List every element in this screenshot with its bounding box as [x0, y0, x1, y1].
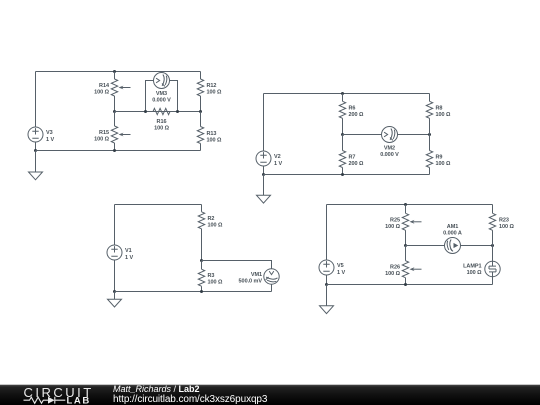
svg-text:500.0 mV: 500.0 mV — [239, 278, 263, 284]
wire bottom rail circuit4 — [327, 284, 493, 286]
wire right rail top circuit2 — [429, 94, 431, 102]
svg-text:R7: R7 — [349, 155, 356, 161]
svg-text:100 Ω: 100 Ω — [208, 222, 224, 228]
ground symbol circuit4 — [320, 285, 334, 314]
footer black bar — [0, 385, 540, 405]
wire VM2 right lead — [398, 134, 430, 136]
resistor R8 100 Ohm — [426, 101, 451, 134]
node junction top of R25 — [404, 203, 407, 206]
svg-text:R13: R13 — [207, 131, 217, 137]
svg-text:R16: R16 — [157, 119, 167, 125]
CircuitLab logo waveform resistor and diode — [24, 397, 66, 404]
footer link title Matt_Richards / Lab2 — [113, 384, 200, 394]
svg-text:0.000 V: 0.000 V — [380, 152, 399, 158]
svg-text:Matt_Richards / Lab2: Matt_Richards / Lab2 — [113, 384, 200, 394]
wire bottom rail circuit1 — [36, 150, 201, 152]
ground symbol circuit3 — [108, 292, 122, 308]
wire left rail circuit1 — [35, 72, 37, 128]
svg-text:R15: R15 — [99, 130, 109, 136]
ammeter AM1 0.000 A — [443, 224, 462, 254]
resistor R7 200 Ohm — [339, 135, 364, 175]
svg-text:R3: R3 — [208, 273, 215, 279]
svg-text:R23: R23 — [499, 217, 509, 223]
svg-text:AM1: AM1 — [447, 224, 458, 230]
svg-text:100 Ω: 100 Ω — [467, 270, 483, 276]
svg-text:R12: R12 — [207, 83, 217, 89]
resistor R15 100 Ohm potentiometer — [94, 112, 130, 151]
wire bottom rail circuit2 — [264, 174, 430, 176]
svg-text:R9: R9 — [436, 155, 443, 161]
svg-text:R8: R8 — [436, 105, 443, 111]
svg-text:V3: V3 — [46, 130, 53, 136]
resistor R9 100 Ohm — [426, 135, 451, 175]
node junction bottom of R15 — [113, 149, 116, 152]
wire left rail circuit4 — [326, 205, 328, 261]
svg-text:R14: R14 — [99, 83, 110, 89]
svg-text:VM2: VM2 — [384, 146, 395, 152]
node junction V1-minus and ground — [113, 290, 116, 293]
svg-text:VM3: VM3 — [156, 91, 167, 97]
resistor R3 100 Ohm — [198, 261, 223, 292]
wire VM1 top lead — [202, 261, 272, 269]
wire VM2 left lead — [343, 134, 382, 136]
wire V3 bottom lead — [35, 142, 37, 151]
svg-text:100 Ω: 100 Ω — [385, 224, 401, 230]
node junction V2-minus and ground — [262, 173, 265, 176]
resistor R6 200 Ohm — [339, 94, 364, 135]
node junction mid circuit4 — [404, 244, 407, 247]
wire top rail circuit4 — [327, 204, 493, 206]
node junction R23-LAMP1 — [491, 244, 494, 247]
resistor R12 100 Ohm — [197, 72, 222, 112]
resistor R26 100 Ohm potentiometer — [385, 246, 421, 285]
svg-text:1 V: 1 V — [274, 161, 282, 167]
node junction bottom of R7 — [341, 173, 344, 176]
svg-text:1 V: 1 V — [337, 270, 345, 276]
wire bottom rail circuit3 — [115, 291, 272, 293]
svg-text:1 V: 1 V — [125, 255, 133, 261]
svg-text:0.000 A: 0.000 A — [443, 231, 462, 237]
wire left rail circuit2 — [263, 94, 265, 152]
node junction mid-left of bridge — [113, 110, 116, 113]
lamp LAMP1 100 Ohm — [463, 246, 500, 285]
voltage source V2 1 V — [256, 151, 282, 167]
voltmeter VM1 500.0 mV — [239, 269, 280, 285]
svg-text:R26: R26 — [390, 265, 400, 271]
svg-text:V2: V2 — [274, 154, 281, 160]
svg-text:100 Ω: 100 Ω — [207, 137, 223, 143]
CircuitLab logo wordmark LAB — [67, 395, 91, 405]
svg-text:http://circuitlab.com/ck3xsz6p: http://circuitlab.com/ck3xsz6puxqp3 — [113, 394, 268, 405]
voltmeter VM2 0.000 V — [380, 127, 399, 159]
svg-text:V5: V5 — [337, 263, 344, 269]
ground symbol circuit2 — [257, 175, 271, 204]
voltage source V1 1 V — [107, 245, 133, 261]
resistor R13 100 Ohm — [197, 112, 222, 151]
svg-text:100 Ω: 100 Ω — [94, 137, 110, 143]
voltage source V5 1 V — [319, 260, 345, 276]
voltage source V3 1 V — [28, 127, 54, 143]
svg-text:100 Ω: 100 Ω — [208, 280, 224, 286]
svg-text:LAMP1: LAMP1 — [463, 264, 481, 270]
node junction bottom of R26 — [404, 283, 407, 286]
voltmeter VM3 0.000 V — [146, 73, 178, 112]
svg-text:100 Ω: 100 Ω — [385, 271, 401, 277]
node junction top of R6 — [341, 92, 344, 95]
node junction mid-left circuit2 — [341, 133, 344, 136]
wire V2 bottom lead — [263, 166, 265, 175]
svg-text:200 Ω: 200 Ω — [349, 161, 365, 167]
wire V1 bottom lead — [114, 260, 116, 292]
resistor R14 100 Ohm potentiometer — [94, 72, 130, 112]
node junction VM3 right lead — [176, 110, 179, 113]
svg-text:100 Ω: 100 Ω — [94, 90, 110, 96]
node junction V3-minus and ground — [34, 149, 37, 152]
svg-text:LAB: LAB — [67, 395, 91, 405]
svg-text:200 Ω: 200 Ω — [349, 112, 365, 118]
CircuitLab logo wordmark CIRCUIT — [24, 385, 94, 400]
resistor R25 100 Ohm potentiometer — [385, 205, 421, 246]
node junction VM3 left lead — [144, 110, 147, 113]
ground symbol circuit1 — [29, 151, 43, 180]
wire top rail circuit2 — [264, 93, 430, 95]
node junction R2-R3-VM1 — [200, 259, 203, 262]
svg-text:100 Ω: 100 Ω — [154, 126, 170, 132]
svg-text:100 Ω: 100 Ω — [436, 161, 452, 167]
svg-text:100 Ω: 100 Ω — [207, 90, 223, 96]
node junction bottom of R3 — [200, 290, 203, 293]
wire AM1 left lead — [406, 245, 445, 247]
wire VM1 bottom lead — [271, 284, 273, 291]
svg-text:100 Ω: 100 Ω — [499, 224, 515, 230]
footer url — [113, 394, 268, 405]
svg-text:R2: R2 — [208, 216, 215, 222]
node junction V5-minus and ground — [325, 283, 328, 286]
svg-text:VM1: VM1 — [251, 272, 262, 278]
wire top rail circuit3 — [115, 204, 202, 206]
svg-text:R6: R6 — [349, 105, 356, 111]
svg-text:R25: R25 — [390, 217, 400, 223]
resistor R23 100 Ohm — [489, 205, 514, 246]
svg-text:0.000 V: 0.000 V — [152, 98, 171, 104]
svg-text:V1: V1 — [125, 248, 132, 254]
wire left rail circuit3 — [114, 205, 116, 246]
wire AM1 right lead — [461, 245, 493, 247]
wire middle rail circuit1 — [115, 111, 201, 113]
wire V5 bottom lead — [326, 275, 328, 285]
node junction mid-right circuit2 — [428, 133, 431, 136]
node junction mid-right of bridge — [199, 110, 202, 113]
resistor R2 100 Ohm — [198, 205, 223, 261]
resistor R16 100 Ohm — [153, 108, 170, 131]
svg-text:1 V: 1 V — [46, 137, 54, 143]
wire top rail circuit1 — [36, 71, 201, 73]
node junction top of R14 — [113, 70, 116, 73]
svg-text:100 Ω: 100 Ω — [436, 112, 452, 118]
